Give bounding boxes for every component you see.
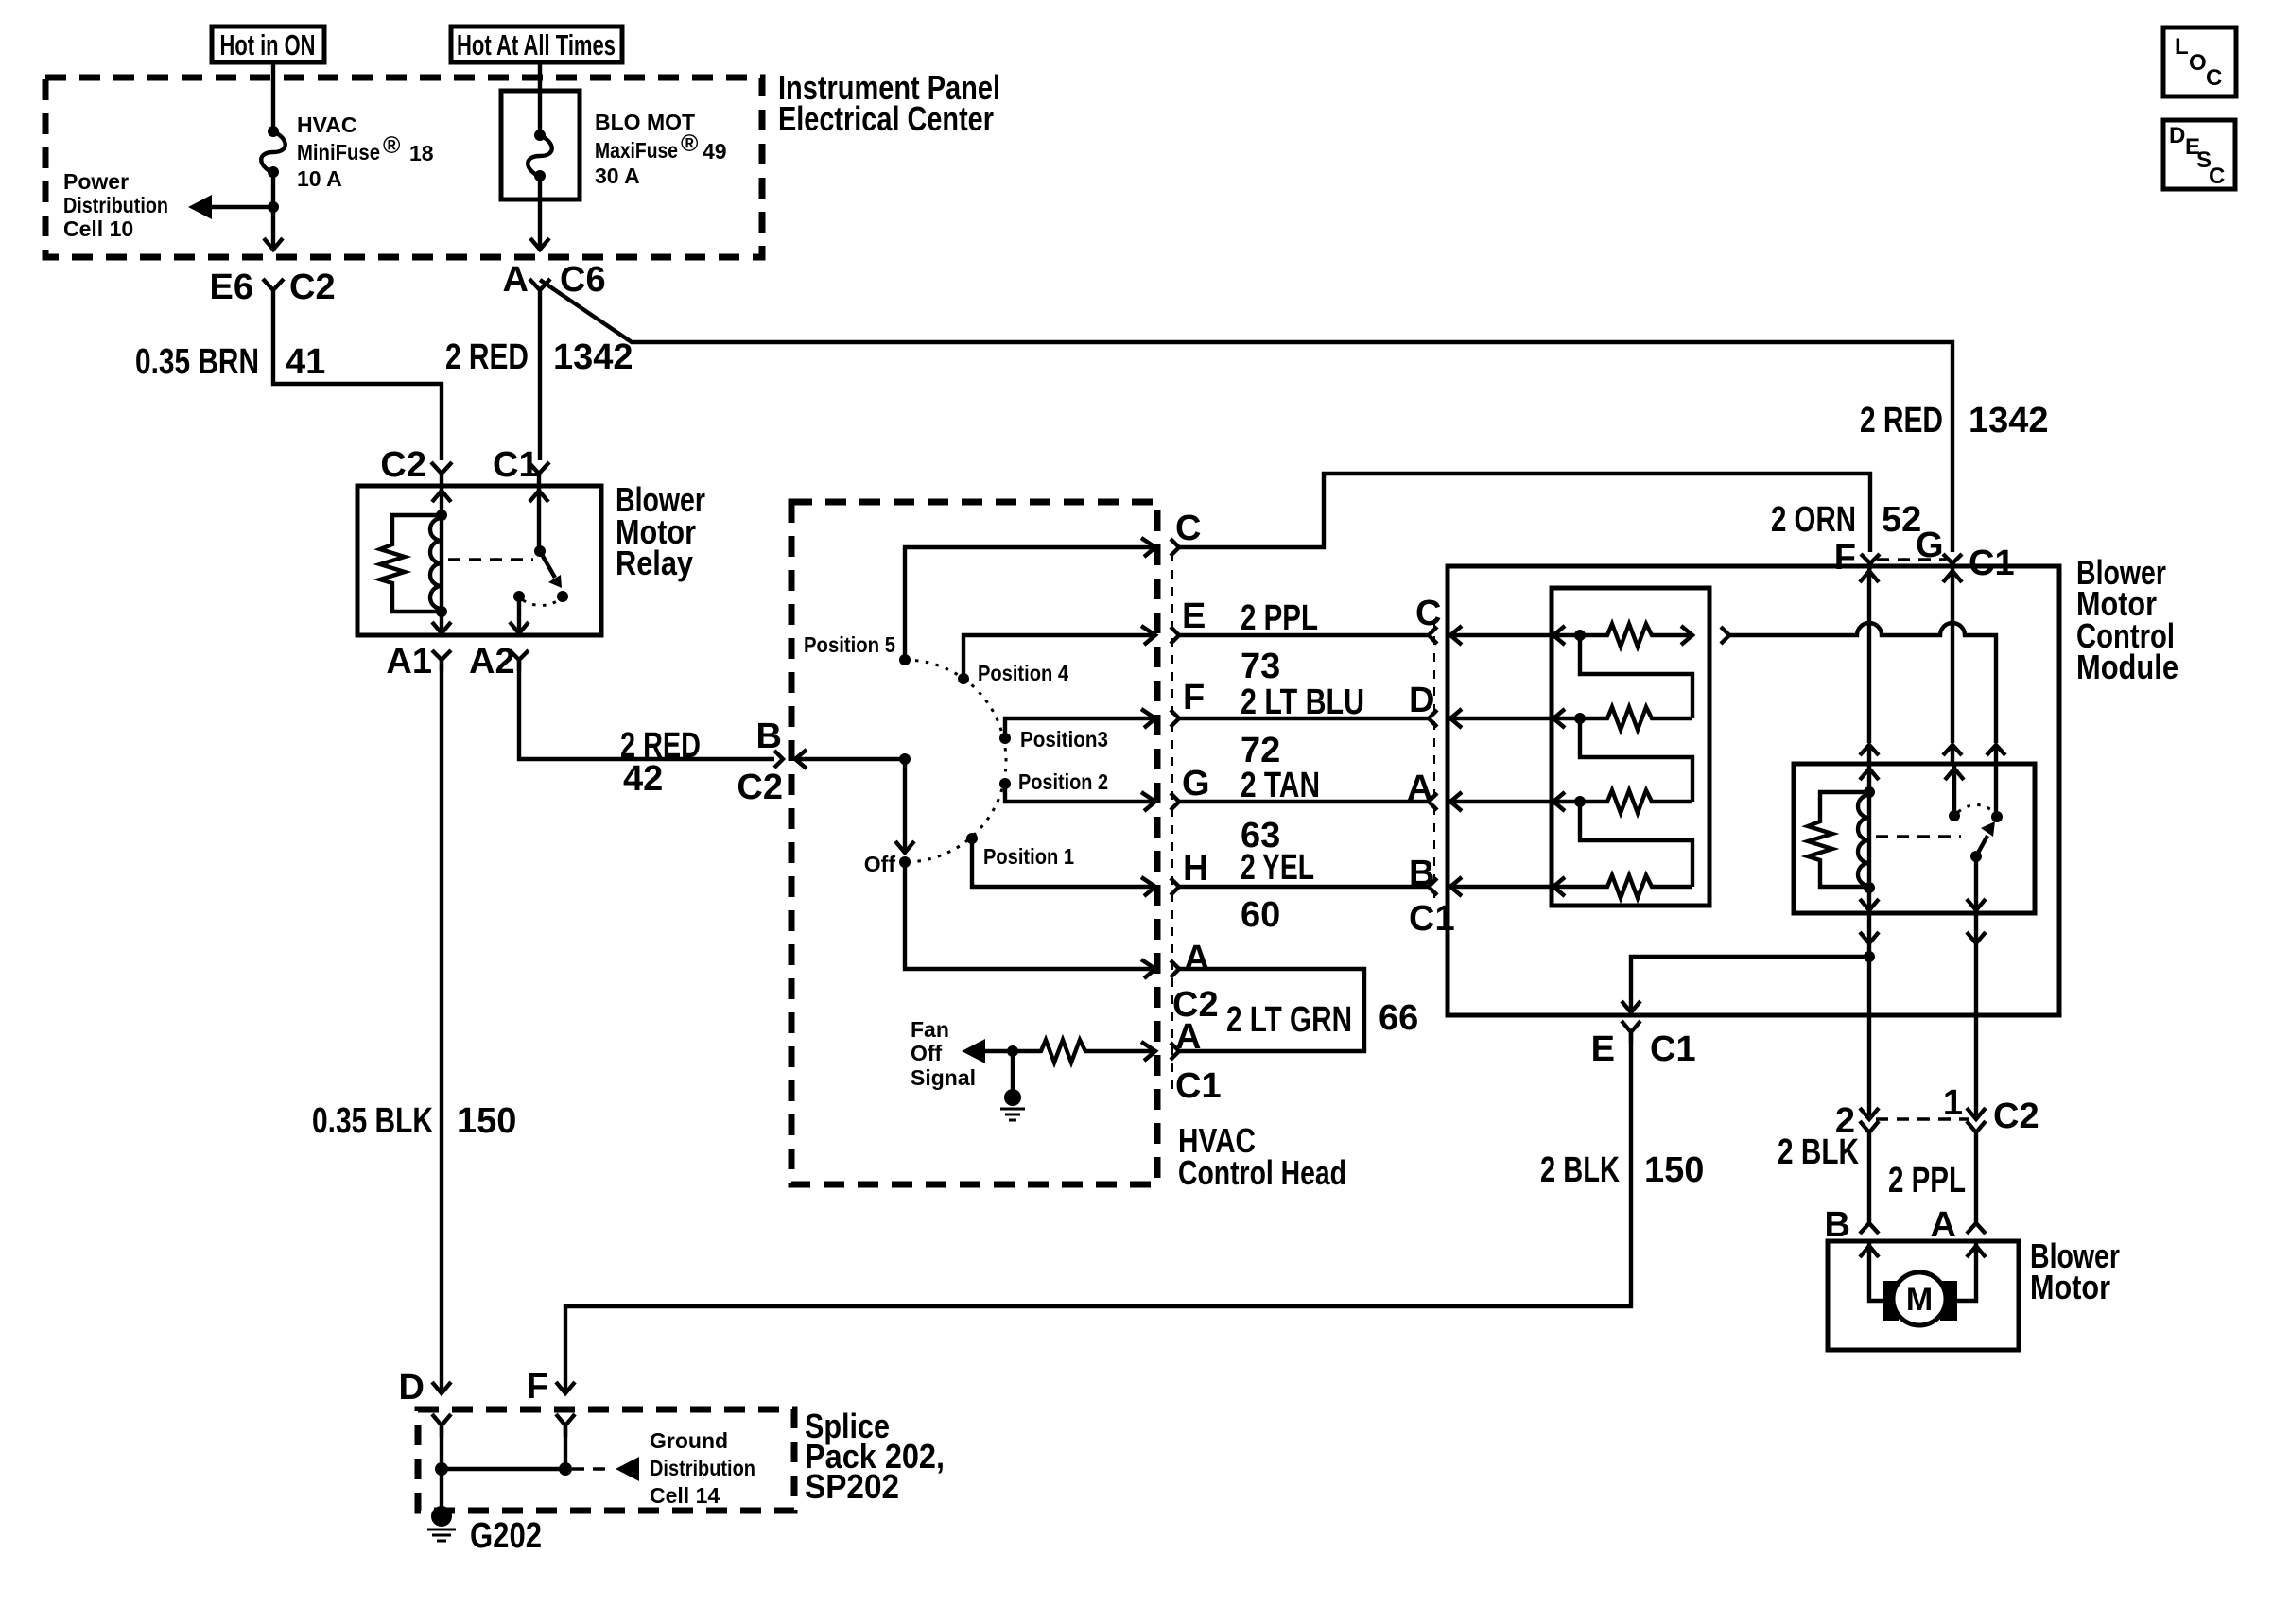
arrow resistor R3 row [1553, 792, 1565, 811]
svg-text:C2: C2 [1993, 1097, 2039, 1136]
inner relay box [1794, 764, 2035, 913]
svg-text:A1: A1 [386, 642, 432, 682]
arrow down inside relay bottom left [432, 622, 451, 633]
wire F pin down into module [1869, 566, 1870, 743]
connector F at module top [1834, 538, 1880, 578]
svg-text:Ground: Ground [650, 1428, 728, 1453]
resistor fan off [1036, 1040, 1155, 1063]
svg-text:®: ® [383, 132, 401, 159]
wire module pin D to resistor pack [1450, 709, 1552, 728]
connector B at blower motor [1825, 1205, 1879, 1245]
svg-text:M: M [1906, 1282, 1933, 1318]
svg-text:2 YEL: 2 YEL [1241, 848, 1314, 888]
chevron module pin B [1429, 878, 1437, 895]
arrow down to Off [895, 841, 914, 853]
chevron pin H connector C1 [1171, 878, 1179, 895]
relay contact NO [557, 591, 568, 602]
chevron pin E connector C1 [1171, 627, 1179, 644]
svg-text:10 A: 10 A [297, 166, 342, 191]
inner relay right feed [1994, 764, 1998, 815]
arrow left at HVAC B border [795, 750, 807, 769]
svg-text:A2: A2 [469, 642, 515, 682]
label Blower Motor [2030, 1236, 2120, 1306]
svg-text:E: E [1591, 1029, 1615, 1069]
connector A1 [386, 642, 451, 682]
wire Off to A row [905, 862, 1155, 969]
inner relay switch feed G [1952, 764, 1956, 814]
wire module pin B to resistor pack [1450, 877, 1552, 896]
arrow up inside module top G [1943, 571, 1962, 582]
dashed link F to G pins [1877, 558, 1946, 561]
svg-text:72: 72 [1241, 731, 1280, 770]
svg-text:Off: Off [864, 852, 896, 876]
inner relay switch arm [1976, 821, 1995, 856]
resistor pack box [1552, 588, 1709, 906]
motor M1 [1883, 1272, 1957, 1325]
relay coil feed wire C2 [440, 486, 443, 633]
svg-text:HVAC: HVAC [297, 112, 356, 137]
chevron pin A connector C1 fan off [1171, 1043, 1179, 1060]
ladder step C to D [1580, 635, 1692, 718]
junction relay coil bottom [436, 606, 447, 617]
arrow up inside module top F [1860, 571, 1879, 582]
svg-text:1342: 1342 [1969, 401, 2049, 441]
wire module pin A to resistor pack [1450, 792, 1552, 811]
svg-text:Position 1: Position 1 [983, 844, 1074, 869]
label HVAC MiniFuse 18 10 A [297, 112, 434, 191]
Off contact [899, 856, 911, 868]
arrow up inside relay top left [432, 491, 451, 502]
svg-text:B: B [756, 717, 782, 756]
motor feed wires inside [1869, 1241, 1887, 1301]
svg-text:C1: C1 [1650, 1029, 1696, 1069]
LOC box [2163, 27, 2236, 96]
svg-text:73: 73 [1241, 647, 1280, 686]
svg-text:49: 49 [703, 139, 727, 164]
chevron pins inside splice box [432, 1414, 451, 1437]
wire 0.35 BRN 41 from E6 to relay C2 [273, 301, 442, 460]
wire 0.35 BLK 150 from A1 to splice D [440, 660, 443, 1393]
svg-text:2 BLK: 2 BLK [1778, 1132, 1859, 1172]
wire position 2 to G row [1005, 784, 1155, 802]
label Instrument Panel Electrical Center [778, 68, 1000, 138]
relay coil [430, 518, 442, 609]
svg-text:F: F [1183, 678, 1205, 717]
arrow down inside inner relay bottom [1860, 899, 1879, 910]
inner relay right contact [1991, 811, 2003, 822]
label BLO MOT MaxiFuse 49 30 A [595, 110, 727, 188]
Blower Motor Control Module box [1448, 566, 2059, 1015]
thin dashed connector line C1 module [1433, 619, 1435, 898]
position 4 contact [958, 673, 969, 684]
relay box Blower Motor Relay [357, 486, 601, 635]
chevron pin A connector C2 [1171, 960, 1179, 977]
resistor R3 [1553, 790, 1692, 813]
chevron module pin D [1429, 710, 1437, 727]
label 2 RED 1342 [445, 337, 633, 377]
wire E branch [1631, 957, 1869, 1012]
chevron below inner relay left [1860, 932, 1879, 943]
Instrument Panel Electrical Center dashed box [45, 78, 762, 257]
wire pin 1 to blower motor A [1974, 1132, 1978, 1220]
svg-text:Position3: Position3 [1020, 727, 1108, 752]
inner relay switch pivot [1970, 851, 1982, 862]
svg-text:0.35 BLK: 0.35 BLK [312, 1101, 433, 1141]
dashed link pin 2 to pin 1 [1876, 1117, 1969, 1121]
position 3 contact [999, 733, 1011, 744]
svg-text:F: F [527, 1367, 548, 1407]
header box Hot in ON [212, 26, 324, 62]
wire fuse F49 down to IP box edge [538, 176, 542, 248]
chevron connector inner relay coil feed [1860, 745, 1879, 764]
svg-text:C6: C6 [560, 260, 606, 300]
label Ground Distribution Cell 14 [650, 1428, 755, 1508]
svg-text:2 LT GRN: 2 LT GRN [1226, 1000, 1352, 1040]
junction on fan off line [1007, 1045, 1018, 1057]
connector E C1 below module [1591, 1021, 1696, 1069]
svg-text:Hot in ON: Hot in ON [220, 28, 316, 61]
dashed actuation link [448, 558, 533, 561]
relay switch common wire C1 [537, 486, 541, 549]
pin 1 connector [1943, 1083, 1986, 1132]
fuse F49 BLO MOT MaxiFuse 49 [501, 91, 580, 199]
wire position 5 to C row [905, 547, 1155, 660]
arrow down inner relay output [1967, 899, 1986, 910]
chevron pin C connector C1 [1171, 539, 1179, 556]
resistor R1 [1553, 624, 1692, 647]
arrow right at fan off border [1141, 1042, 1155, 1061]
svg-text:F: F [1834, 538, 1856, 578]
junction node R2 [1574, 713, 1586, 724]
svg-text:Power: Power [63, 169, 129, 194]
wire from inner relay to pin 2 [1867, 913, 1871, 1115]
junction inner relay coil bottom [1864, 882, 1875, 893]
svg-text:0.35 BRN: 0.35 BRN [135, 342, 259, 382]
wire splice bus [442, 1425, 565, 1469]
svg-text:2 BLK: 2 BLK [1540, 1150, 1620, 1190]
svg-text:Electrical Center: Electrical Center [778, 99, 994, 138]
svg-text:MiniFuse: MiniFuse [297, 140, 380, 164]
connector G at module top [1916, 526, 1962, 566]
connector A2 [469, 642, 529, 682]
svg-text:G: G [1182, 764, 1210, 803]
arrow to Ground Distribution [616, 1457, 639, 1481]
wire 2 LT GRN 66 loop [1179, 969, 1364, 1051]
header box Hot At All Times [451, 26, 622, 62]
chevron module pin A [1429, 793, 1437, 810]
svg-text:C1: C1 [1409, 899, 1455, 939]
svg-text:H: H [1183, 849, 1208, 889]
dotted throw arc inner relay [1958, 805, 1994, 813]
chevron connector inner relay switch feed [1943, 745, 1962, 764]
relay contact A2 [513, 591, 525, 602]
label Fan Off Signal [911, 1017, 976, 1090]
svg-text:66: 66 [1379, 998, 1418, 1038]
chevron pin F connector C1 [1171, 710, 1179, 727]
svg-text:Relay: Relay [616, 544, 693, 582]
arrow into IP box bottom at E6 [264, 238, 283, 250]
svg-text:Position 2: Position 2 [1018, 769, 1108, 794]
ladder step A to B [1580, 802, 1692, 887]
chevron connector inner relay contact feed [1987, 745, 2005, 764]
arrow up inside inner relay top [1860, 769, 1879, 780]
svg-text:L: L [2175, 34, 2189, 60]
svg-text:2 RED: 2 RED [445, 337, 529, 377]
svg-text:E6: E6 [210, 268, 253, 307]
wire fuse F18 down to IP box edge [271, 172, 275, 248]
row wires HVAC to module [1179, 474, 1870, 552]
label 2 TAN 63 [1241, 766, 1320, 855]
DESC box [2163, 120, 2235, 189]
inner relay coil [1858, 795, 1869, 886]
svg-text:Distribution: Distribution [63, 193, 168, 217]
position 5 contact [899, 654, 911, 665]
svg-text:60: 60 [1241, 895, 1280, 935]
dotted position arc [905, 660, 1006, 862]
connector A at blower motor [1931, 1205, 1986, 1245]
svg-text:D: D [2169, 123, 2185, 148]
label 2 RED 42 [620, 726, 701, 799]
junction splice F [559, 1462, 572, 1476]
label 2 LT GRN 66 [1226, 998, 1418, 1040]
rotary switch common feed [795, 757, 905, 761]
chevron below inner relay right [1967, 932, 1986, 943]
position 2 contact [999, 778, 1011, 789]
svg-text:C: C [2209, 164, 2225, 189]
svg-text:C: C [2206, 65, 2222, 91]
dashed stub to Ground Distribution [572, 1467, 613, 1471]
Fan Off Signal arrow [962, 1039, 1036, 1063]
svg-text:E: E [1182, 596, 1206, 636]
junction node R1 [1574, 630, 1586, 641]
arrow resistor R2 row [1553, 709, 1565, 728]
svg-text:42: 42 [623, 759, 663, 799]
svg-text:150: 150 [1644, 1150, 1704, 1190]
svg-text:2 PPL: 2 PPL [1241, 598, 1318, 638]
junction node R3 [1574, 796, 1586, 807]
svg-text:MaxiFuse: MaxiFuse [595, 138, 678, 163]
label Power Distribution Cell 10 [63, 169, 168, 241]
junction relay coil top [436, 510, 447, 521]
svg-text:1342: 1342 [553, 337, 633, 377]
Splice Pack dashed box [418, 1409, 794, 1511]
wire 2 RED 1342 from C6 to relay C1 [538, 301, 542, 460]
HVAC Control Head dashed box [791, 502, 1157, 1184]
label 0.35 BRN 41 [135, 342, 325, 382]
junction splice D [435, 1462, 448, 1476]
svg-text:Position 4: Position 4 [978, 661, 1068, 685]
thin dashed connector line C1 HVAC [1171, 553, 1173, 1097]
connector B C2 chevron [737, 717, 783, 807]
relay switch arm [540, 551, 562, 588]
svg-text:1: 1 [1943, 1083, 1963, 1123]
dotted throw arc [523, 600, 559, 606]
arrow right on R1 row [1681, 626, 1692, 645]
svg-text:Cell 10: Cell 10 [63, 216, 133, 241]
position 1 contact [966, 833, 978, 844]
svg-text:C: C [1175, 509, 1201, 548]
arrow down inside relay bottom right [510, 622, 529, 633]
fuse F18 HVAC MiniFuse 18 [261, 126, 286, 178]
svg-text:Distribution: Distribution [650, 1456, 755, 1480]
svg-text:2 LT BLU: 2 LT BLU [1241, 682, 1364, 722]
arrows up inside motor box [1860, 1246, 1879, 1257]
inner relay coil wire [1867, 764, 1871, 910]
label HVAC Control Head [1178, 1121, 1346, 1192]
ground at fan off signal [1000, 1051, 1025, 1120]
wire C1-G pin down into module [1951, 566, 1954, 743]
inner relay dashed actuation link [1876, 835, 1961, 838]
svg-text:Cell 14: Cell 14 [650, 1483, 720, 1508]
svg-text:G202: G202 [470, 1516, 542, 1556]
connector E6 C2 [210, 268, 336, 307]
svg-text:C1: C1 [1969, 544, 2015, 583]
svg-text:D: D [399, 1368, 425, 1408]
svg-text:150: 150 [457, 1101, 516, 1141]
label Blower Motor Control Module [2076, 553, 2178, 686]
svg-text:C1: C1 [1175, 1066, 1222, 1106]
arrow up inner relay switch feed [1945, 769, 1964, 780]
pin 2 connector [1835, 1101, 1879, 1141]
svg-text:2 PPL: 2 PPL [1888, 1161, 1966, 1201]
arrow resistor R1 row [1553, 626, 1565, 645]
junction dot E branch [1864, 951, 1875, 962]
chevron pin G connector C1 [1171, 793, 1179, 810]
svg-text:18: 18 [409, 141, 434, 165]
connector D at splice pack [399, 1368, 451, 1408]
relay switch pivot [534, 545, 546, 557]
svg-text:®: ® [681, 130, 699, 157]
svg-text:Fan: Fan [911, 1017, 949, 1042]
inner relay resistor [1808, 792, 1869, 887]
label 2 LT BLU 72 [1241, 682, 1364, 770]
inner relay switch contact G [1949, 810, 1960, 821]
svg-text:Hot At All Times: Hot At All Times [457, 28, 616, 61]
connector C1 at relay [493, 445, 549, 485]
arrow resistor R4 row [1553, 877, 1565, 896]
arrow to Power Distribution [188, 195, 273, 219]
wire position 4 to E row [963, 635, 1155, 679]
svg-text:Control Head: Control Head [1178, 1153, 1346, 1192]
label 2 BLK 150 [1540, 1150, 1704, 1190]
svg-text:30 A: 30 A [595, 164, 640, 188]
junction inner relay coil top [1864, 786, 1875, 798]
label Splice Pack 202 SP202 [805, 1407, 945, 1506]
Blower Motor box [1828, 1241, 2019, 1350]
inner relay output wire [1974, 856, 1978, 910]
wire 2 RED 1342 diagonal branch to module C1 [540, 280, 1952, 552]
svg-text:Motor: Motor [2030, 1268, 2110, 1306]
svg-text:Position 5: Position 5 [804, 632, 895, 657]
arrow down at module bottom E [1622, 1001, 1640, 1012]
label 0.35 BLK 150 [312, 1101, 516, 1141]
ground G202 [427, 1469, 456, 1541]
svg-text:A: A [1184, 939, 1209, 978]
svg-text:SP202: SP202 [805, 1467, 899, 1506]
label Blower Motor Relay [616, 480, 705, 582]
label 2 YEL 60 [1241, 848, 1314, 935]
svg-text:C2: C2 [380, 445, 426, 485]
connector F at splice pack [527, 1367, 575, 1407]
wire 2 BLK 150 from E to splice F [565, 1032, 1631, 1393]
chevron right of resistor box [1721, 627, 1729, 644]
wire module pin C to resistor pack [1450, 626, 1552, 645]
connector C2 at relay [380, 445, 452, 485]
label 2 PPL 73 [1241, 598, 1318, 686]
wire from inner relay to pin 1 [1974, 913, 1978, 1115]
resistor R2 [1553, 707, 1692, 730]
svg-text:2 ORN: 2 ORN [1771, 500, 1856, 540]
wire R1 output to inner relay with hops [1729, 623, 1996, 743]
svg-text:2 RED: 2 RED [1860, 401, 1943, 441]
connector A C6 [503, 260, 606, 301]
label 2 RED 1342 right [1860, 401, 2049, 441]
svg-text:O: O [2189, 50, 2207, 76]
wire position 1 to H row [972, 838, 1155, 887]
svg-text:Signal: Signal [911, 1065, 976, 1090]
arrow into IP box bottom at A [530, 238, 549, 250]
svg-text:2 TAN: 2 TAN [1241, 766, 1320, 805]
resistor R4 [1553, 875, 1692, 898]
ladder step D to A [1580, 718, 1692, 802]
relay output wire to A2 [517, 598, 521, 633]
svg-text:C2: C2 [737, 768, 783, 807]
relay resistor [380, 515, 442, 612]
row arrows at HVAC right edge [1141, 538, 1155, 557]
junction on fuse 18 wire [268, 201, 279, 213]
svg-text:41: 41 [286, 342, 325, 382]
label 2 ORN 52 [1771, 500, 1921, 540]
svg-text:Module: Module [2076, 648, 2178, 686]
arrow up inside relay top right [529, 491, 548, 502]
wire position 3 to F row [1005, 718, 1155, 738]
chevron module pin C [1429, 627, 1437, 644]
wire 2 RED 42 from A2 to HVAC B [519, 660, 774, 759]
wire pin 2 to blower motor B [1867, 1132, 1871, 1220]
wire from Hot in ON to fuse F18 [271, 62, 275, 130]
svg-text:A: A [503, 260, 529, 300]
svg-text:C2: C2 [289, 268, 336, 307]
wire Hot At All Times into fuse box [538, 62, 542, 133]
svg-text:Off: Off [911, 1041, 943, 1065]
